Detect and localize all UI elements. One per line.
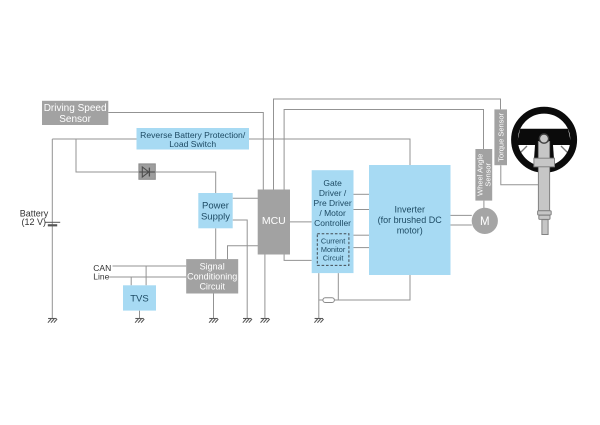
wire: shunt rail to inverter bottom (319, 275, 410, 300)
wire: inverter to motor phase 2 (451, 224, 472, 226)
wire: wheel angle sensor to motor (483, 201, 485, 208)
svg-text:Power: Power (202, 201, 229, 212)
wire: power supply to MCU (233, 197, 258, 199)
driving speed sensor (42, 101, 108, 125)
CAN Line label (93, 263, 111, 282)
wire: gate driver current sense to shunt (337, 273, 339, 300)
svg-text:Driver /: Driver / (319, 188, 347, 198)
ground: power supply rail (243, 319, 252, 323)
steering wheel hub pad (517, 129, 572, 145)
svg-text:Gate: Gate (323, 178, 342, 188)
wire: torque sensor to steering column (501, 165, 539, 185)
wire: CAN line low to signal conditioning (109, 276, 186, 278)
steering wheel thin spoke right (561, 146, 572, 157)
wire: driving speed sensor to MCU (108, 113, 263, 191)
svg-text:motor): motor) (397, 226, 423, 236)
wire: reverse battery protection to inverter (249, 139, 410, 165)
svg-text:Signal: Signal (200, 262, 225, 272)
svg-text:M: M (480, 216, 490, 228)
wire: battery rail vertical to ground (51, 139, 53, 318)
ground: signal conditioning circuit (209, 319, 218, 323)
wire: diode output to power supply (154, 172, 216, 193)
steering column joint ring 1 (538, 211, 552, 215)
torque sensor (494, 109, 507, 165)
wire: gate driver to inverter 2 (354, 209, 370, 211)
svg-text:(12 V): (12 V) (22, 217, 47, 227)
steering column hub circle (539, 134, 548, 143)
signal conditioning circuit (186, 259, 238, 293)
motor M (472, 208, 498, 234)
steering column main shaft (538, 142, 549, 211)
svg-text:(for brushed DC: (for brushed DC (378, 215, 443, 225)
svg-text:Load Switch: Load Switch (169, 139, 216, 149)
wire: MCU to torque sensor (274, 99, 501, 190)
steering wheel center spoke (534, 145, 555, 167)
svg-text:Line: Line (93, 272, 109, 282)
wire: MCU to gate driver (290, 221, 312, 223)
svg-text:Controller: Controller (314, 218, 351, 228)
wire: battery to reverse battery protection (52, 138, 136, 140)
svg-text:Sensor: Sensor (59, 114, 91, 125)
wire: signal conditioning to ground (213, 294, 215, 319)
wire: inverter to current monitor 1 (354, 234, 370, 236)
svg-text:Sensor: Sensor (484, 162, 493, 186)
wire: CAN stub to TVS left (130, 277, 132, 285)
shunt resistor (323, 298, 335, 303)
wire: power supply to ground stub (233, 220, 248, 318)
gate driver / pre driver / motor controller (312, 170, 354, 273)
wire: inverter to current monitor 2 (354, 247, 370, 249)
MCU U1 (258, 190, 290, 255)
power supply (198, 193, 232, 228)
steering column joint ring 2 (539, 215, 550, 219)
wire: signal conditioning circuit to MCU (228, 246, 259, 259)
diode D1 (139, 164, 155, 179)
svg-text:Torque Sensor: Torque Sensor (497, 112, 506, 161)
inverter (for brushed DC motor) (369, 165, 451, 275)
wire: MCU to wheel angle sensor (284, 110, 483, 191)
reverse battery protection / load switch (137, 128, 250, 150)
svg-text:TVS: TVS (130, 293, 148, 304)
wire: CAN stub to TVS right (145, 266, 147, 285)
wire: inverter to motor phase 1 (451, 214, 472, 216)
steering wheel rim (515, 110, 574, 169)
svg-text:Supply: Supply (201, 212, 230, 223)
wire: gate driver to power ground (318, 273, 320, 318)
svg-text:Circuit: Circuit (323, 254, 344, 263)
wire: CAN line high to signal conditioning (113, 265, 187, 267)
wire: MCU to ground (264, 255, 266, 319)
wire: gate driver to inverter 1 (354, 193, 370, 195)
wheel angle sensor (475, 149, 492, 201)
wire: MCU to current monitor circuit (284, 255, 312, 261)
svg-text:Conditioning: Conditioning (187, 272, 237, 282)
svg-text:Inverter: Inverter (394, 205, 425, 215)
svg-text:/ Motor: / Motor (319, 208, 346, 218)
wire: power supply to signal conditioning circuit (215, 228, 217, 259)
svg-text:Pre Driver: Pre Driver (313, 198, 351, 208)
steering column lower shaft (542, 220, 548, 235)
svg-text:MCU: MCU (262, 215, 286, 227)
ground: MCU (261, 319, 270, 323)
svg-text:Driving Speed: Driving Speed (44, 103, 107, 114)
current monitor circuit (317, 234, 349, 266)
steering column crossbar (534, 158, 555, 167)
steering wheel thin spoke left (517, 146, 528, 157)
svg-text:Circuit: Circuit (199, 282, 225, 292)
ground: TVS (135, 319, 144, 323)
wire: TVS to ground (139, 311, 141, 318)
TVS (123, 285, 156, 310)
ground: power stage (314, 319, 323, 323)
battery B1 symbol (45, 222, 60, 225)
ground: battery (48, 319, 57, 323)
battery label (12 V) (20, 209, 49, 227)
wire: battery tee to diode input (76, 139, 139, 172)
